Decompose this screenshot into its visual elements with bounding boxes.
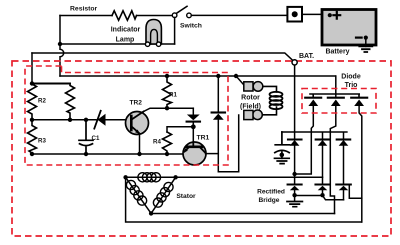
wire switch to connector — [191, 14, 287, 16]
indicator lamp body — [146, 20, 161, 45]
wire lamp bottom line — [60, 43, 175, 45]
wire trio feed riser — [335, 76, 337, 98]
node R1 top dot — [165, 74, 169, 78]
rotor brush bottom — [253, 110, 263, 120]
stator coil left — [126, 180, 146, 205]
stator coil top — [138, 173, 161, 182]
svg-text:R1: R1 — [169, 92, 177, 99]
indicator lamp inner envelope — [151, 29, 158, 44]
diode above TR1 — [192, 108, 194, 115]
wire divider top horizontal — [32, 83, 70, 85]
svg-text:Rotor: Rotor — [241, 95, 260, 102]
wire connector to battery — [302, 13, 328, 15]
rectifier bottom diode 3 — [336, 183, 351, 185]
resistor (top, in series with switch) — [112, 11, 137, 20]
svg-text:TR2: TR2 — [130, 100, 143, 107]
svg-text:R3: R3 — [38, 138, 46, 145]
ground under battery — [365, 40, 367, 47]
rectifier bottom diode 2 — [316, 183, 330, 185]
switch right contact — [187, 13, 192, 18]
ground symbol under capacitor — [275, 158, 290, 163]
rotor brush top — [236, 76, 244, 85]
switch left contact — [172, 13, 177, 18]
wire phase bus B — [151, 213, 334, 215]
wire sense drop to divider R2 — [31, 53, 33, 84]
node BAT terminal (open circle) — [292, 60, 297, 65]
svg-text:(Field): (Field) — [240, 104, 261, 111]
wire resistor to switch — [137, 15, 173, 17]
wire diode to TR1 collector — [192, 122, 194, 143]
node diode cathode dot — [191, 124, 196, 129]
svg-text:Trio: Trio — [345, 82, 358, 89]
node R2 bottom dot — [30, 118, 34, 122]
svg-text:R4: R4 — [153, 139, 161, 146]
svg-text:Switch: Switch — [180, 23, 202, 30]
wire BAT vertical to rectifier B+ — [294, 65, 296, 140]
svg-text:BAT.: BAT. — [299, 53, 314, 60]
node lamp-left junction dot — [58, 42, 62, 46]
resistor R2 — [28, 84, 37, 120]
indicator lamp terminal right — [156, 42, 160, 46]
alternator case (outer red dashed box) — [12, 61, 391, 236]
node field diode top dot — [216, 74, 220, 78]
svg-text:Rectified: Rectified — [257, 189, 285, 196]
node ground rail dot 2 — [320, 193, 324, 197]
battery — [322, 10, 376, 46]
wire TR1 emitter to field return — [206, 153, 219, 155]
diode trio diode 3 — [351, 97, 367, 99]
stator coil right — [153, 182, 173, 207]
wire regulator bottom line — [32, 153, 183, 155]
svg-text:C1: C1 — [92, 135, 100, 142]
indicator lamp terminal left — [145, 42, 149, 46]
svg-text:TR1: TR1 — [197, 135, 210, 142]
svg-text:Bridge: Bridge — [259, 197, 280, 204]
node divider top dot — [30, 81, 34, 85]
diode trio diode 2 — [328, 97, 344, 99]
diode trio diode 1 — [305, 97, 321, 99]
node R3 bottom dot — [30, 152, 34, 156]
transistor TR2 — [126, 112, 149, 135]
wire field line (terminal 1 to diode trio) — [60, 75, 335, 77]
svg-text:Battery: Battery — [325, 49, 349, 56]
wire divider mid line — [32, 119, 96, 121]
wire TR2 collector to R1 node — [144, 108, 194, 111]
svg-text:Lamp: Lamp — [116, 37, 135, 44]
wire phase bus A — [176, 176, 323, 178]
connector box at BAT output — [287, 7, 302, 22]
wire R4 top feed — [167, 127, 193, 132]
diode trio cathode rail — [310, 94, 359, 98]
resistor R1 — [163, 76, 172, 108]
svg-text:R2: R2 — [38, 98, 46, 105]
rectifier top diode 3 — [337, 138, 351, 140]
freewheeling field diode — [217, 76, 219, 113]
diode trio red dashed box — [302, 89, 376, 114]
node brush feed dot — [234, 74, 238, 78]
wire top rail from node 1 to resistor — [60, 15, 112, 17]
rectifier top diode 2 — [316, 138, 330, 140]
node R1 bottom dot — [165, 106, 169, 110]
wire battery sense line to BAT node — [32, 53, 293, 61]
resistor unlabeled (parallel with R2) — [66, 84, 75, 120]
rectifier top diode 1 — [288, 138, 302, 140]
capacitor C1 — [79, 120, 93, 154]
rotor field coil — [263, 86, 277, 114]
svg-text:Stator: Stator — [176, 193, 196, 200]
svg-text:Resistor: Resistor — [70, 6, 98, 13]
rectifier bottom diode 1 — [288, 183, 302, 185]
capacitor suppressor — [275, 132, 290, 158]
wire TR2 emitter down — [139, 134, 141, 154]
resistor R3 — [28, 120, 37, 154]
wire node-1 vertical at x60 with hop over sense line — [60, 16, 64, 77]
rectifier B+ rail — [282, 132, 347, 140]
resistor R4 — [163, 132, 172, 154]
regulator (inner red dashed box) — [25, 66, 228, 165]
wire ground rail of bridge — [295, 196, 344, 200]
node parallel resistor bottom dot — [68, 118, 72, 122]
node TR2 emitter dot — [137, 152, 141, 156]
wire lamp right riser to switch — [174, 18, 176, 45]
node stator top-right dot — [173, 175, 177, 179]
stator delta winding — [126, 177, 176, 213]
node capacitor ground dot — [280, 153, 285, 158]
switch blade — [177, 6, 188, 13]
zener diode — [98, 114, 106, 126]
ground symbol under bridge — [287, 202, 302, 207]
transistor TR1 — [183, 142, 206, 165]
node ground rail dot 1 — [292, 193, 296, 197]
svg-text:Diode: Diode — [341, 74, 361, 81]
wire phase C riser — [349, 185, 362, 199]
node stator top-left dot — [123, 175, 127, 179]
node phase A tap dot — [292, 172, 296, 176]
node C1 top dot — [84, 118, 88, 122]
node stator bottom dot — [149, 211, 153, 215]
node R4 bottom dot — [165, 152, 169, 156]
wire phase bus C — [126, 177, 362, 222]
node C1 bottom dot — [84, 152, 88, 156]
svg-text:Indicator: Indicator — [111, 27, 141, 34]
